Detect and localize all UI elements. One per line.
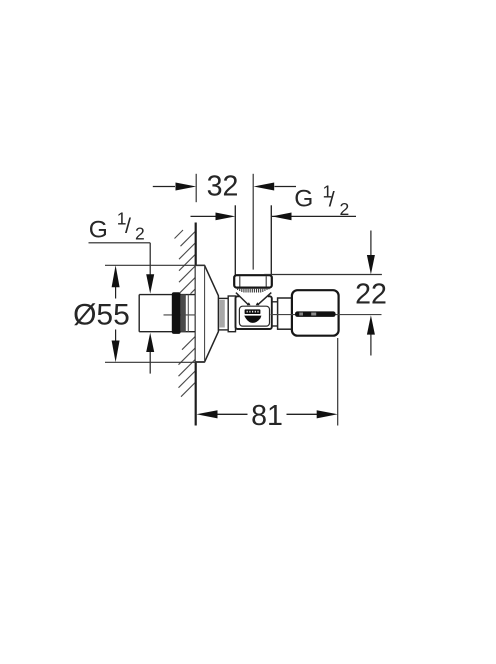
compression nut on outlet [234,275,272,287]
dim 32 left arrow [153,186,175,188]
svg-text:32: 32 [207,170,239,202]
horizontal center line, right segment (lower reference of dim 22) [271,314,382,316]
dim D55 down arrow [115,330,117,342]
supply pipe stub behind wall [139,295,196,332]
dim 22 down arrow [370,231,372,257]
dim 81 left arrow [196,410,217,418]
left G1/2 arrow to pipe bottom edge [149,351,151,374]
dim 22 top extension line [264,274,382,276]
outlet thread texture [238,288,269,293]
dark seal ring on supply pipe [172,292,181,334]
dim D55 up arrow [115,286,117,299]
svg-text:Ø55: Ø55 [73,298,130,331]
svg-text:G: G [89,216,108,243]
grey washer beside seal ring [181,294,186,331]
bonnet step edges [272,302,278,326]
funnel V lines into body [236,293,271,305]
handle knob [292,290,339,336]
pipe edge line at wall [187,295,189,332]
G1/2 leader with arrow to outlet pipe right edge [272,215,356,217]
handle slot highlights [299,313,303,316]
label G1/2 (inlet thread), left [89,208,145,243]
neck cylinder shading [219,300,225,328]
svg-text:81: 81 [251,400,283,432]
wall section hatching [175,230,196,397]
logo wordmark bar [245,309,261,314]
valve body [236,296,272,329]
rosette flange line [204,265,206,362]
dim D55 bottom extension line [105,361,205,363]
open top of body between funnel lines [240,294,268,299]
wall face line (also left extension line of dim 81) [195,223,197,426]
svg-text:22: 22 [355,279,387,311]
body face panel [239,306,269,326]
left G1/2 leader underline and drop line [89,242,151,244]
G1/2 arrow to outlet pipe left edge [191,215,219,217]
svg-text:G: G [294,186,313,213]
dim 22 up arrow [370,334,372,356]
dim 32 left extension line [195,174,197,202]
dim 81 right arrow [317,410,338,418]
handle slot [295,311,336,317]
neck cylinder edges [218,298,228,330]
svg-text:2: 2 [135,224,145,244]
svg-text:/: / [329,187,335,211]
nut facet lines [239,276,241,286]
outlet pipe right edge [270,205,272,275]
outlet axis line (also right extension line of dim 32) [252,174,254,270]
funnel V tips [247,302,251,305]
logo smile shape [244,316,261,323]
logo letter ticks [247,311,259,313]
rosette cone outline [196,265,219,362]
left G1/2 arrow to pipe top edge [146,274,154,293]
outlet pipe left edge [234,205,236,275]
bonnet collar [278,298,292,329]
label G1/2 (outlet thread), top right [294,182,349,220]
svg-text:/: / [125,214,131,238]
dim 32 right arrow [275,186,297,188]
step ring [228,296,235,332]
dim D55 top extension line [105,264,205,266]
dim 81 line segments [217,413,317,415]
dim 81 right extension line [337,338,339,426]
horizontal center line, left segment [164,314,210,316]
